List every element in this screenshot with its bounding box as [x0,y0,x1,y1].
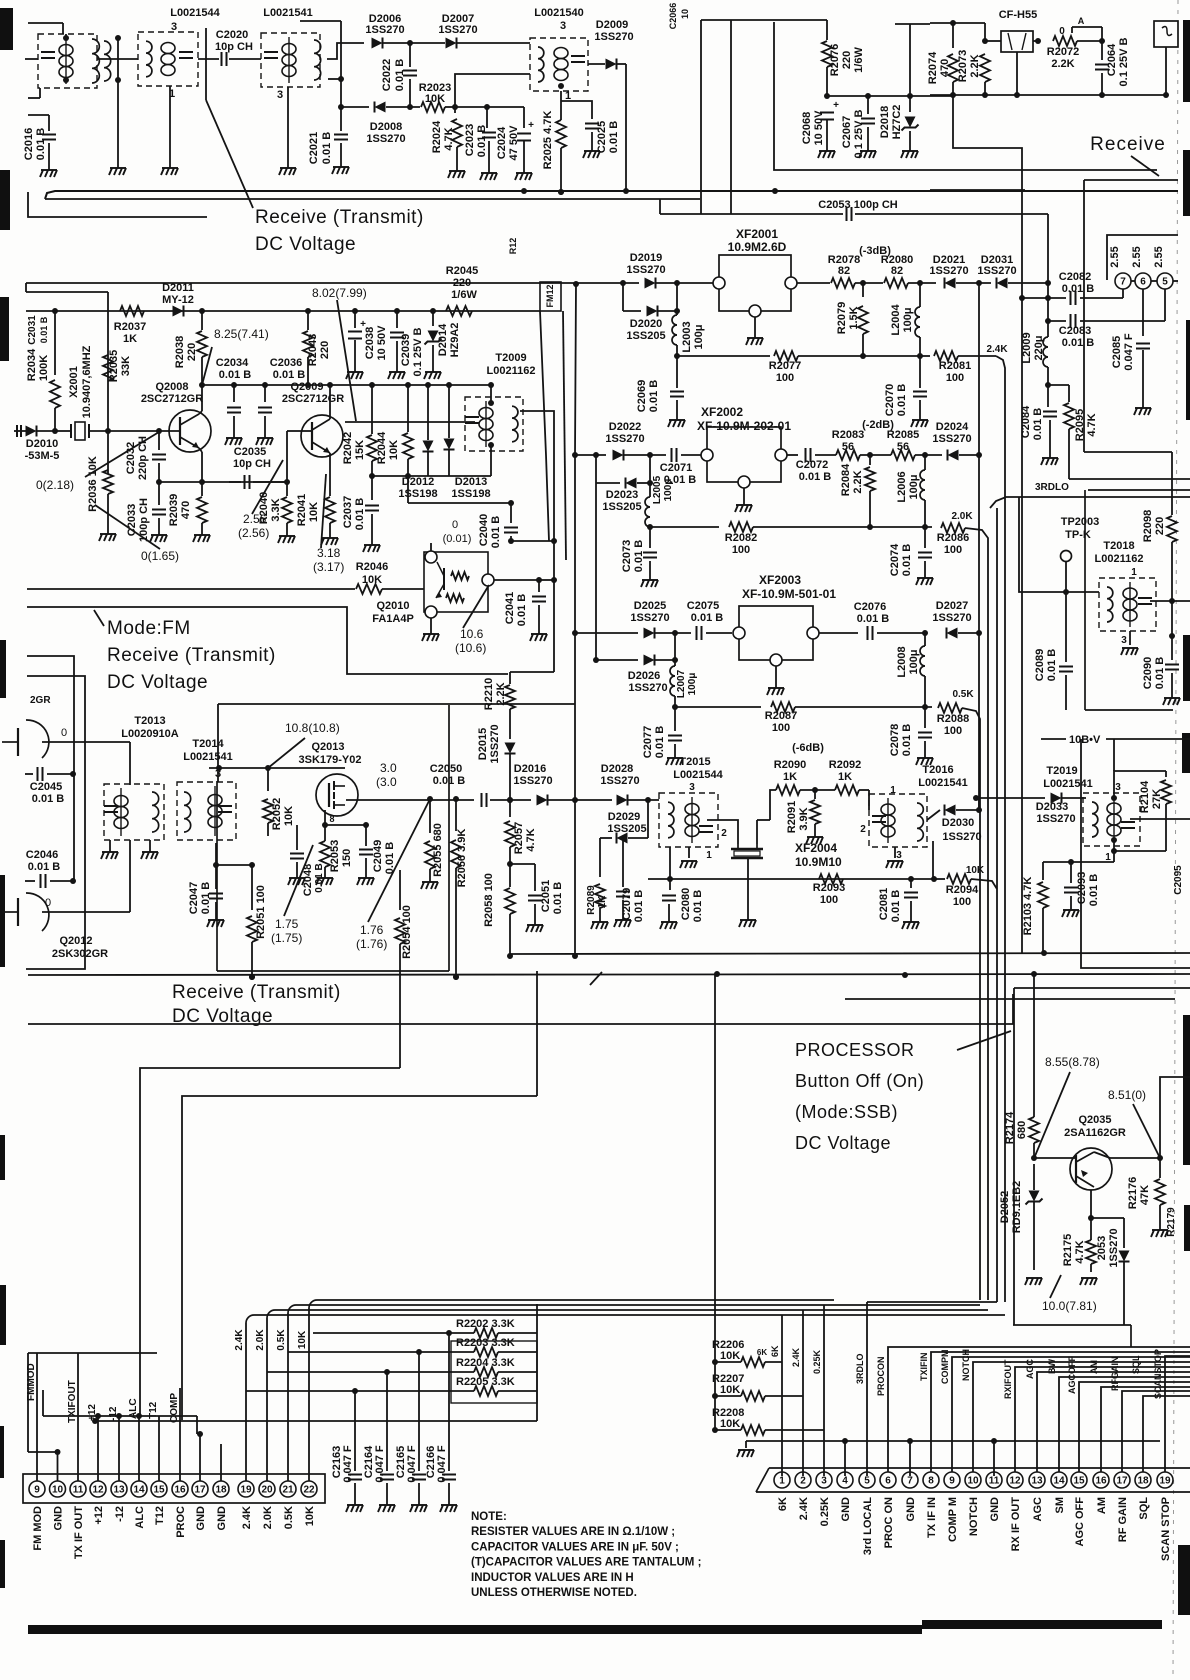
wire [129,742,131,785]
junction [991,1438,997,1444]
svg-text:L0021540: L0021540 [534,7,584,19]
scan artifact left edge [0,875,5,967]
diode D2023 [626,478,637,489]
svg-text:(T)CAPACITOR VALUES ARE TANTAL: (T)CAPACITOR VALUES ARE TANTALUM ; [471,1557,701,1569]
ground [515,173,532,180]
wire [745,1441,747,1448]
scan artifact left edge [0,1540,5,1588]
wire [25,773,33,775]
wire [28,22,63,24]
wire [1043,861,1114,863]
ground [141,852,158,859]
wire [756,820,758,844]
svg-text:1SS270: 1SS270 [365,24,404,36]
junction [305,308,311,314]
svg-text:82: 82 [838,265,850,277]
wire [205,28,207,100]
svg-text:R2092: R2092 [829,759,861,771]
svg-text:RF GAIN: RF GAIN [1117,1497,1129,1542]
svg-text:10.9M10: 10.9M10 [795,855,842,869]
svg-text:R2176: R2176 [1127,1177,1139,1209]
svg-text:UNLESS OTHERWISE NOTED.: UNLESS OTHERWISE NOTED. [471,1587,637,1599]
junction [55,1449,61,1455]
pointer line [1035,1072,1070,1156]
shield box T2018 [1085,490,1190,710]
junction [593,657,599,663]
junction [558,189,564,195]
resistor R2175 [1086,1240,1096,1264]
svg-text:COMP M: COMP M [947,1497,959,1542]
ground [225,438,242,445]
svg-text:0.01 B: 0.01 B [490,516,502,548]
svg-text:10K: 10K [362,574,382,586]
wire [826,120,828,151]
wire [429,799,431,833]
wire [407,385,409,432]
svg-text:C2066: C2066 [668,3,678,30]
filter CF-H55 [1001,31,1033,52]
svg-text:2.4K: 2.4K [791,1347,801,1367]
svg-text:C2039: C2039 [400,334,412,366]
svg-text:C2033: C2033 [126,504,138,536]
svg-text:Receive (Transmit): Receive (Transmit) [107,645,276,666]
wire [910,901,912,922]
wire [1066,591,1099,593]
svg-text:100μ: 100μ [908,474,920,499]
wire [251,865,253,910]
wire [561,101,592,119]
svg-text:8: 8 [329,814,334,824]
svg-text:1.76: 1.76 [360,923,384,937]
svg-text:100K: 100K [38,355,50,381]
wire [599,838,601,877]
ground [346,1505,363,1512]
wire [432,345,434,372]
wire rail y311 [26,310,540,312]
inductor L2005 [645,497,650,527]
svg-text:220p CH: 220p CH [137,436,149,480]
wire main bus y191 [45,191,1178,199]
svg-text:0.01 B: 0.01 B [28,861,60,873]
connector pin 1 [774,1472,790,1488]
svg-text:1SS270: 1SS270 [932,433,971,445]
pointer line [590,972,602,985]
junction [917,353,923,359]
wire [669,847,671,879]
svg-text:15: 15 [1073,1476,1085,1487]
wire [1065,562,1067,592]
diode D2007 [446,38,457,49]
capacitor C2050 [482,793,487,807]
capacitor C2077 [668,736,682,741]
junction [284,479,290,485]
wire [445,106,455,108]
wire y292 [26,291,108,293]
wire [1113,851,1115,862]
svg-text:56: 56 [897,441,909,453]
svg-text:HZ7C2: HZ7C2 [891,105,903,140]
resistor R2078 [831,278,855,288]
svg-text:T2016: T2016 [922,764,953,776]
junction [453,796,459,802]
svg-text:12: 12 [1009,1476,1021,1487]
connector pin 16 [1093,1472,1109,1488]
svg-text:11: 11 [73,1485,84,1496]
svg-text:3.18: 3.18 [317,546,341,560]
svg-text:D2008: D2008 [370,121,402,133]
wire pin lead [158,1416,160,1481]
resistor R2056 [451,840,461,868]
wire R2208 [715,1429,741,1431]
junction [1163,92,1169,98]
svg-text:1: 1 [1131,567,1137,578]
diode D2024 [948,450,959,461]
coil pair [104,41,111,81]
capacitor C2070 [913,392,927,397]
wire vertical x575 [574,800,576,956]
wire [1123,1262,1125,1325]
wire [430,618,432,634]
capacitor C2034 [227,408,241,413]
capacitor C2037 [365,506,379,511]
ground [321,538,338,545]
wire [301,430,312,432]
wire [509,672,511,684]
inductor L2004 [915,307,920,337]
wire [1070,1157,1076,1159]
svg-text:3RDLO: 3RDLO [855,1353,865,1384]
svg-text:2: 2 [860,824,866,835]
junction [712,1393,718,1399]
capacitor C2048 [290,854,304,859]
svg-text:L0021541: L0021541 [1043,778,1093,790]
wire [919,400,921,420]
svg-text:100μ: 100μ [693,324,705,349]
wire [596,659,638,661]
svg-text:(0.01): (0.01) [443,533,472,545]
wire [819,632,858,634]
wire [859,789,869,791]
wire [1041,738,1066,740]
diode D2025 [644,628,655,639]
wire [1062,797,1086,799]
ground [1163,698,1180,705]
wire C2021 net [340,21,342,131]
svg-text:0.01 B: 0.01 B [654,726,666,758]
ground [363,545,380,552]
wire [588,63,605,65]
wire [1113,739,1115,771]
svg-text:6K: 6K [777,1497,789,1511]
wire [1150,600,1172,602]
wire [287,87,289,168]
ground [421,882,438,889]
resistor R2205 [474,1386,498,1396]
wire [797,282,830,284]
junction [136,1413,142,1419]
wire [354,1391,356,1471]
inductor L2007 [670,666,675,696]
wire [407,476,409,503]
resistor R2057 [505,821,515,847]
svg-text:5: 5 [864,1476,870,1487]
scan artifact bottom bar right [922,1620,1162,1629]
wire [924,561,926,578]
ground [591,922,608,929]
resistor R2098 [1167,516,1177,542]
svg-text:1SS270: 1SS270 [366,133,405,145]
svg-text:C2075: C2075 [687,600,719,612]
wire [486,107,488,128]
capacitor C2089 [1059,667,1073,672]
svg-text:PROCON: PROCON [876,1356,886,1396]
wire [1034,1157,1070,1159]
svg-text:15: 15 [153,1485,165,1496]
svg-text:L0021162: L0021162 [1095,553,1144,565]
junction [922,630,928,636]
wire [341,106,369,108]
svg-text:2.4K: 2.4K [241,1506,253,1529]
svg-text:2: 2 [721,828,727,839]
svg-text:D2026: D2026 [628,670,660,682]
svg-text:10.9M2.6D: 10.9M2.6D [728,240,787,254]
junction [1111,795,1117,801]
ground [1062,910,1079,917]
wire [862,334,864,356]
svg-text:0.01 B: 0.01 B [648,380,660,412]
ground [666,758,683,765]
scan artifact right edge [1183,150,1190,216]
wire [924,676,926,707]
ground [735,505,752,512]
wire vertical x715 [714,974,716,1362]
wire [287,430,301,432]
junction [907,93,913,99]
ground [916,578,933,585]
svg-text:C2081: C2081 [878,888,890,920]
svg-text:1.75: 1.75 [275,917,299,931]
svg-text:T2014: T2014 [192,738,224,750]
junction [1088,1215,1094,1221]
connector pin 2 [795,1472,811,1488]
wire [329,457,331,496]
svg-text:T12: T12 [154,1506,166,1525]
ground [818,151,835,158]
svg-text:10: 10 [680,9,690,19]
resistor R2058 [505,888,515,914]
wire [647,800,649,838]
wire [396,341,398,372]
capacitor C2020 [222,52,227,66]
wire [1070,862,1072,883]
wire [658,310,677,312]
junction [231,382,237,388]
wire pin3 lead [823,1305,825,1476]
pointer line [284,845,313,916]
ground [440,1505,457,1512]
svg-text:10 50V: 10 50V [376,325,388,361]
wire [28,114,49,116]
svg-text:0.01 B: 0.01 B [552,882,564,914]
svg-text:(1.76): (1.76) [356,937,387,951]
svg-text:R2079: R2079 [836,302,848,334]
svg-text:2.55: 2.55 [1109,246,1121,267]
resistor R2202 [474,1328,498,1338]
wire pin2 lead [802,1310,804,1476]
wire [169,86,171,168]
wire [770,790,776,820]
wire arc [288,1305,296,1313]
crystal X2001 [71,422,89,440]
junction [369,382,375,388]
svg-text:0.5K: 0.5K [952,689,974,700]
ground [422,634,439,641]
wire [747,858,749,920]
svg-text:C2031: C2031 [27,315,38,345]
wire [1130,818,1190,820]
wire vertical x576 [575,284,576,633]
junction [1045,318,1051,324]
wire [959,454,979,456]
svg-text:C2038: C2038 [364,327,376,359]
svg-text:3RDLO: 3RDLO [1035,482,1069,493]
junction [772,188,778,194]
svg-text:33K: 33K [120,356,132,376]
svg-text:L2003: L2003 [681,321,693,352]
connector pin 20 [259,1481,275,1497]
connector pin 13 [111,1481,127,1497]
svg-text:1SS270: 1SS270 [438,24,477,36]
wire fan lead [931,1352,1190,1472]
junction [712,1427,718,1433]
wire [795,706,932,708]
resistor R2077 [774,351,798,361]
svg-text:10: 10 [967,1476,979,1487]
wire [409,79,411,107]
junction [674,308,680,314]
svg-text:R2058 100: R2058 100 [483,873,495,927]
diode D2027 [947,628,958,639]
wire [199,411,202,414]
svg-text:1SS270: 1SS270 [630,612,669,624]
scan artifact bottom bar [28,1625,922,1634]
svg-text:R2090: R2090 [774,759,806,771]
svg-text:L0020910A: L0020910A [121,728,179,740]
junction [674,353,680,359]
wire [676,400,678,420]
wire [656,282,719,284]
transformer T2014 primary [184,792,191,832]
svg-text:D2010: D2010 [26,438,58,450]
svg-text:C2023: C2023 [464,124,476,156]
wire y479 [1069,478,1190,480]
resistor R2086 [941,523,965,533]
junction [842,1438,848,1444]
ground [746,338,763,345]
svg-text:0.01 B: 0.01 B [219,369,251,381]
junction [446,1330,452,1336]
capacitor C2038 electrolytic [348,332,362,339]
wire [1113,840,1115,851]
wire pin lead [179,1388,181,1481]
wire [509,709,511,739]
inductor L2003 [672,315,677,345]
wire x537 resistor bus [536,1304,538,1421]
wire [815,454,836,456]
svg-text:0.01 B: 0.01 B [1154,657,1166,689]
svg-text:0.01 B: 0.01 B [890,890,902,922]
ground [859,151,876,158]
connector pin 19 [238,1481,254,1497]
junction [1019,295,1025,301]
scan artifact left edge [0,1426,4,1478]
capacitor C2082 [1071,291,1076,305]
svg-text:13: 13 [113,1485,125,1496]
wire arc [267,1310,275,1318]
wire [399,870,401,910]
svg-text:C2084: C2084 [1020,405,1032,438]
svg-text:R2046: R2046 [356,561,388,573]
wire pin lead [118,1416,120,1481]
wire [674,633,676,666]
svg-text:GND: GND [195,1506,207,1531]
transistor Q2013 [316,774,358,816]
svg-text:D2013: D2013 [455,476,487,488]
junction [249,862,255,868]
svg-text:1SS270: 1SS270 [513,775,552,787]
wire [1033,40,1038,42]
junction [908,876,914,882]
ground [101,852,118,859]
junction [508,538,514,544]
svg-text:1SS270: 1SS270 [628,682,667,694]
svg-text:220: 220 [319,341,331,359]
wire [1090,1264,1092,1272]
resistor R2208 [741,1425,765,1435]
junction [249,974,255,980]
wire [509,864,511,887]
svg-text:SCAN STOP: SCAN STOP [1160,1497,1172,1561]
svg-text:2.4K: 2.4K [986,344,1008,355]
svg-text:100: 100 [732,544,750,556]
svg-text:7: 7 [907,1476,913,1487]
svg-text:D2023: D2023 [606,489,638,501]
svg-text:C2046: C2046 [26,849,58,861]
wire pin lead [77,1353,79,1481]
wire [455,74,530,107]
resistor R2083 [836,450,860,460]
capacitor C2023 [482,133,496,138]
wire [201,311,203,330]
svg-text:10K: 10K [283,806,295,826]
connector pin 11 [70,1481,86,1497]
ground [1151,1230,1168,1237]
connector pin 13 [1029,1472,1045,1488]
transformer T2010 L0021540 [530,38,588,91]
svg-text:C2016: C2016 [23,128,35,160]
wire [354,311,356,328]
resistor R2084 [865,467,875,491]
svg-text:C2022: C2022 [381,59,393,91]
svg-text:4.7K: 4.7K [1086,413,1098,436]
svg-text:3: 3 [171,21,177,33]
svg-text:D2009: D2009 [596,19,628,31]
wire feed x85 [26,676,85,969]
svg-text:D2024: D2024 [936,421,969,433]
ground [316,878,333,885]
wire [62,23,64,34]
junction [867,452,873,458]
